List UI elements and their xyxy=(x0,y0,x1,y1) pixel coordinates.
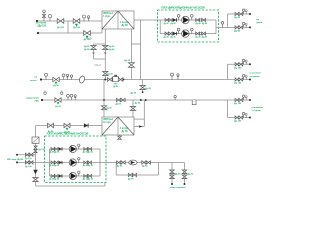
svg-text:Ду 80: Ду 80 xyxy=(109,49,115,51)
svg-text:УЗЕЛ ЦИРКУЛЯЦИОННЫХ НАСОСОВ: УЗЕЛ ЦИРКУЛЯЦИОННЫХ НАСОСОВ xyxy=(161,7,205,10)
svg-text:Ду 80: Ду 80 xyxy=(84,49,90,51)
svg-text:Ду 80: Ду 80 xyxy=(142,165,148,167)
svg-text:Ду 80: Ду 80 xyxy=(234,30,241,32)
svg-text:отопление: отопление xyxy=(250,73,262,75)
svg-text:Ду 80: Ду 80 xyxy=(202,23,207,25)
svg-text:ВВП №1: ВВП №1 xyxy=(104,12,114,15)
svg-text:ХВС ввод 2Ду100: ХВС ввод 2Ду100 xyxy=(7,159,23,161)
svg-text:Ду 100: Ду 100 xyxy=(234,121,242,123)
svg-text:Ду 100: Ду 100 xyxy=(25,166,32,168)
svg-text:Ду 25: Ду 25 xyxy=(145,88,152,90)
svg-text:Ду 65: Ду 65 xyxy=(54,165,59,167)
svg-text:Ду 65: Ду 65 xyxy=(88,152,93,154)
svg-text:Ду 65: Ду 65 xyxy=(122,131,129,133)
svg-text:Ду 100: Ду 100 xyxy=(234,103,242,105)
svg-text:дома: дома xyxy=(257,22,263,24)
svg-text:II ступ.: II ступ. xyxy=(104,122,112,124)
svg-text:Ду 100: Ду 100 xyxy=(234,67,242,69)
svg-text:Ду 65: Ду 65 xyxy=(116,104,122,106)
svg-text:ВВП №2: ВВП №2 xyxy=(104,118,114,121)
svg-text:Ду 65: Ду 65 xyxy=(106,108,112,110)
svg-text:1 поток: 1 поток xyxy=(120,22,129,24)
svg-text:Ду 100: Ду 100 xyxy=(234,83,242,85)
svg-text:Ду 80: Ду 80 xyxy=(107,74,113,76)
svg-text:Ду 65: Ду 65 xyxy=(88,179,93,181)
svg-text:Ду 80: Ду 80 xyxy=(164,23,169,25)
svg-text:Ду 25: Ду 25 xyxy=(188,173,194,175)
svg-text:Ду 80: Ду 80 xyxy=(196,37,201,39)
svg-text:Ду 80: Ду 80 xyxy=(122,25,129,27)
svg-text:Ду 65: Ду 65 xyxy=(55,106,61,108)
svg-text:ГВС: ГВС xyxy=(35,101,40,103)
svg-text:I ступ.: I ступ. xyxy=(104,16,111,18)
svg-text:отопл.: отопл. xyxy=(30,80,37,82)
svg-text:из домов: из домов xyxy=(250,76,261,78)
svg-text:2Ду 150: 2Ду 150 xyxy=(37,26,46,28)
svg-text:Ду 65: Ду 65 xyxy=(131,92,137,94)
svg-text:из т/сети: из т/сети xyxy=(36,22,47,24)
svg-text:1,2 дома: 1,2 дома xyxy=(252,110,262,112)
svg-text:Ду 25: Ду 25 xyxy=(175,173,181,175)
svg-text:Ду 80: Ду 80 xyxy=(202,37,207,39)
svg-text:Ду 65: Ду 65 xyxy=(54,179,59,181)
svg-text:Ду 80: Ду 80 xyxy=(171,37,176,39)
svg-text:циркуляция: циркуляция xyxy=(26,97,40,99)
svg-text:Ду 80: Ду 80 xyxy=(164,37,169,39)
svg-text:УЗЕЛ ХОЗЯЙСТВЕННЫХ НАСОСОВ: УЗЕЛ ХОЗЯЙСТВЕННЫХ НАСОСОВ xyxy=(47,132,89,135)
svg-text:Ду 80: Ду 80 xyxy=(109,46,115,48)
svg-text:Ду 65: Ду 65 xyxy=(54,152,59,154)
svg-text:Ду 80: Ду 80 xyxy=(171,23,176,25)
svg-text:отопление: отопление xyxy=(252,107,264,109)
svg-text:слив в канализ.: слив в канализ. xyxy=(170,187,187,189)
svg-text:Ду 80: Ду 80 xyxy=(53,85,59,87)
svg-text:Ду 80: Ду 80 xyxy=(117,165,123,167)
svg-text:Ду 65: Ду 65 xyxy=(124,60,131,62)
svg-text:Ду 80: Ду 80 xyxy=(196,23,201,25)
svg-text:Ду 80: Ду 80 xyxy=(234,17,241,19)
svg-text:Сброс: Сброс xyxy=(94,65,102,67)
svg-text:Ду 150: Ду 150 xyxy=(73,27,81,29)
svg-text:Ду 65: Ду 65 xyxy=(135,102,141,104)
svg-text:Ду 65: Ду 65 xyxy=(88,165,93,167)
svg-text:Ду 100: Ду 100 xyxy=(25,158,32,160)
svg-text:Ду 80: Ду 80 xyxy=(84,46,90,48)
svg-text:1 поток: 1 поток xyxy=(120,128,129,130)
svg-text:Сброс: Сброс xyxy=(85,38,93,40)
svg-text:Ду 50: Ду 50 xyxy=(128,178,134,180)
svg-text:Ду 80: Ду 80 xyxy=(113,86,118,88)
svg-text:Ду 150: Ду 150 xyxy=(57,27,65,29)
